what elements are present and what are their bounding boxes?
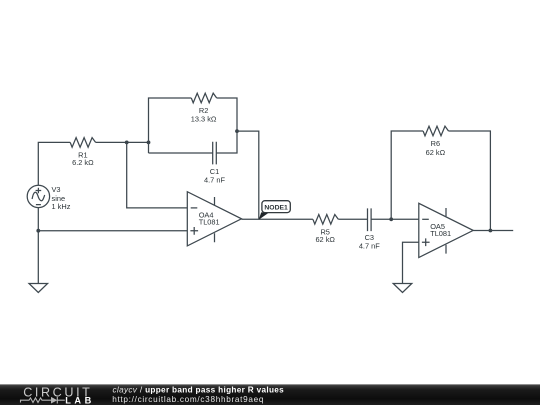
op-amp OA5: [419, 203, 473, 257]
wire R5 to C3: [338, 218, 367, 220]
node junction inverting branch: [125, 141, 129, 145]
svg-text:4.7 nF: 4.7 nF: [204, 176, 225, 185]
wire V3 bottom to ground: [37, 208, 39, 284]
svg-text:6.2 kΩ: 6.2 kΩ: [72, 158, 94, 167]
wire to OA4 noninverting input: [38, 230, 187, 232]
op-amp OA4: [187, 192, 241, 246]
logo squiggle resistor diode: [21, 397, 65, 404]
node junction at R2 box left: [147, 141, 151, 145]
wire OA4 output: [242, 218, 313, 220]
wire R2 box left edge: [149, 98, 192, 153]
wire feedback tap to output: [237, 131, 259, 219]
svg-text:NODE1: NODE1: [264, 205, 288, 212]
svg-text:R2: R2: [199, 106, 208, 115]
node junction feedback left: [389, 217, 393, 221]
wire OA5 output: [473, 230, 513, 232]
svg-text:1 kHz: 1 kHz: [52, 202, 71, 211]
wire R2 to box right edge: [216, 98, 237, 153]
svg-text:62 kΩ: 62 kΩ: [426, 148, 446, 157]
svg-text:13.3 kΩ: 13.3 kΩ: [191, 115, 217, 124]
svg-text:http://circuitlab.com/c38hhbra: http://circuitlab.com/c38hhbrat9aeq: [112, 395, 264, 404]
wire C3 to OA5 inverting input: [371, 218, 419, 220]
node junction feedback tap: [235, 129, 239, 133]
wire to OA4 inverting input: [127, 142, 188, 208]
node junction output: [489, 229, 493, 233]
svg-text:V3: V3: [52, 185, 61, 194]
svg-text:TL081: TL081: [430, 229, 451, 238]
capacitor C3: [359, 208, 380, 250]
resistor R6: [423, 126, 448, 157]
capacitor C1: [204, 142, 225, 185]
wire OA5 noninverting input to ground: [403, 242, 419, 283]
resistor R5: [313, 215, 338, 245]
wire R1 to R2 box: [96, 141, 149, 143]
node junction noninverting branch: [36, 229, 40, 233]
ground GND1: [29, 284, 48, 293]
svg-text:LAB: LAB: [65, 396, 95, 405]
wire R6 down to OA5 output: [449, 131, 491, 231]
resistor R1: [70, 138, 95, 168]
wire C1 to box left: [149, 152, 213, 154]
svg-text:claycv / upper band pass highe: claycv / upper band pass higher R values: [113, 386, 285, 395]
wire V3 top to R1: [38, 142, 70, 185]
wire feedback up to R6: [391, 131, 423, 219]
svg-text:TL081: TL081: [199, 217, 220, 226]
ground GND2: [393, 284, 412, 293]
resistor R2: [191, 93, 217, 123]
node NODE1 flag: [259, 201, 291, 220]
svg-text:4.7 nF: 4.7 nF: [359, 242, 380, 251]
svg-text:62 kΩ: 62 kΩ: [315, 235, 335, 244]
voltage source V3: [27, 185, 70, 211]
